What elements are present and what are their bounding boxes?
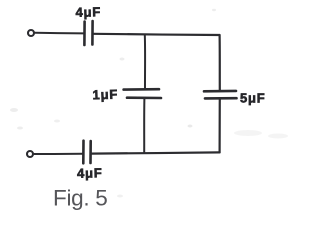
capacitor C4 4uF (bottom) right plate — [89, 141, 92, 163]
terminal T1 (top-left open circle) — [28, 30, 34, 36]
wire: right branch lower (C3 bottom plate to bottom wire) — [219, 99, 221, 153]
wire: right branch upper (node B down to C3 top plate) — [219, 35, 221, 91]
capacitor C2 1uF top plate — [124, 88, 159, 91]
terminal T2 (bottom-left open circle) — [27, 151, 33, 157]
capacitor C3 5uF top plate — [204, 90, 236, 93]
wire: middle branch upper (top wire down to C2 top plate) — [144, 35, 146, 89]
svg-text:5μF: 5μF — [240, 91, 266, 106]
svg-text:1μF: 1μF — [92, 87, 118, 103]
wire: middle branch lower (C2 bottom plate to bottom wire) — [143, 98, 145, 153]
capacitor C3 5uF bottom plate — [205, 97, 237, 100]
wire bottom-left: terminal to C4 left plate — [34, 153, 83, 155]
wire top: C1 right plate to node B corner — [93, 34, 220, 35]
capacitor C1 4uF (top) right plate — [91, 21, 94, 45]
wire bottom: C4 right plate to node D corner — [91, 152, 220, 153]
capacitor C1 4uF (top) left plate — [83, 22, 86, 46]
svg-text:Fig. 5: Fig. 5 — [53, 186, 107, 211]
svg-text:4μF: 4μF — [75, 4, 101, 19]
capacitor C4 4uF (bottom) left plate — [82, 141, 85, 164]
svg-text:4μF: 4μF — [77, 165, 103, 180]
wire top-left: terminal to C1 left plate — [35, 32, 84, 35]
capacitor C2 1uF bottom plate — [127, 96, 161, 99]
